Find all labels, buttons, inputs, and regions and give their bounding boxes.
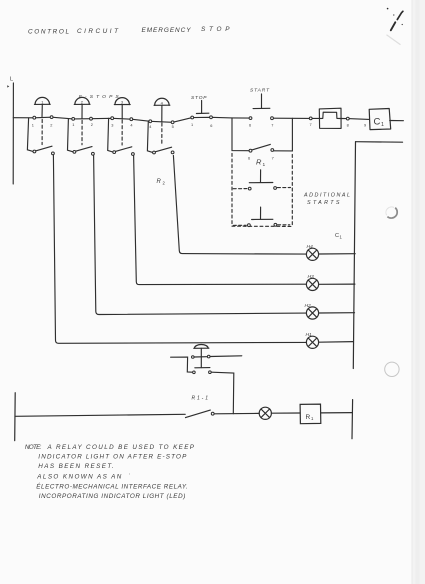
svg-text:H3: H3 bbox=[308, 274, 315, 280]
svg-text:1: 1 bbox=[191, 122, 193, 127]
svg-text:8: 8 bbox=[347, 123, 349, 128]
svg-text:7: 7 bbox=[272, 155, 274, 160]
svg-text:C: C bbox=[374, 117, 381, 128]
svg-text:H2: H2 bbox=[305, 303, 312, 309]
svg-text:1: 1 bbox=[32, 123, 34, 128]
svg-text:INCORPORATING INDICATOR LIGHT: INCORPORATING INDICATOR LIGHT (LED) bbox=[39, 493, 186, 500]
svg-text:START: START bbox=[250, 88, 270, 94]
svg-text:2: 2 bbox=[91, 122, 93, 127]
svg-text:L: L bbox=[10, 76, 13, 82]
svg-text:H1: H1 bbox=[306, 332, 313, 338]
svg-text:A RELAY COULD BE USED TO KEEP: A RELAY COULD BE USED TO KEEP bbox=[47, 444, 195, 451]
svg-text:H4: H4 bbox=[307, 244, 314, 250]
svg-text:1: 1 bbox=[263, 162, 266, 168]
svg-text:ÉLECTRO-MECHANICAL INTERFACE R: ÉLECTRO-MECHANICAL INTERFACE RELAY. bbox=[36, 481, 188, 490]
svg-text:6: 6 bbox=[210, 123, 212, 128]
svg-text:R: R bbox=[306, 414, 311, 421]
svg-text:2: 2 bbox=[50, 123, 52, 128]
svg-text:R: R bbox=[157, 179, 162, 185]
svg-text:EMERGENCY: EMERGENCY bbox=[142, 27, 192, 34]
svg-text:ALSO KNOWN AS AN: ALSO KNOWN AS AN bbox=[36, 473, 121, 480]
svg-text:CONTROL: CONTROL bbox=[28, 29, 69, 36]
svg-text:STOP: STOP bbox=[191, 95, 207, 101]
svg-text:HAS BEEN RESET.: HAS BEEN RESET. bbox=[38, 463, 114, 470]
svg-text:6: 6 bbox=[248, 156, 250, 161]
svg-text:1: 1 bbox=[381, 122, 384, 128]
svg-text:3: 3 bbox=[111, 122, 113, 127]
svg-text:7: 7 bbox=[310, 122, 312, 127]
svg-text:6: 6 bbox=[249, 123, 251, 128]
svg-text:7: 7 bbox=[271, 122, 273, 127]
svg-text:5: 5 bbox=[172, 124, 174, 129]
svg-text:INDICATOR LIGHT ON AFTER E-STO: INDICATOR LIGHT ON AFTER E-STOP bbox=[38, 453, 187, 460]
svg-text:R: R bbox=[256, 158, 262, 167]
svg-text:1: 1 bbox=[72, 122, 74, 127]
svg-text:9: 9 bbox=[364, 122, 366, 127]
svg-text:': ' bbox=[129, 473, 130, 478]
svg-text:NOTE:: NOTE: bbox=[25, 444, 42, 451]
svg-text:C: C bbox=[335, 233, 339, 239]
